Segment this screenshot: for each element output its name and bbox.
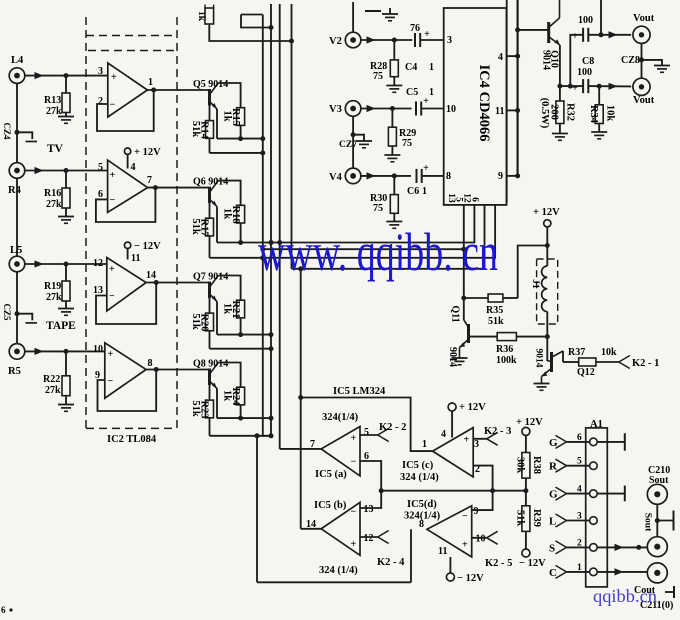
op-amp IC5(d): [419, 506, 486, 557]
wire bar to 51k resistor: [209, 203, 211, 218]
node op3 output junction: [154, 280, 159, 285]
svg-text:L: L: [549, 516, 556, 528]
svg-text:G: G: [549, 437, 558, 449]
svg-text:2: 2: [98, 96, 103, 107]
terminator Cout: [665, 586, 674, 598]
wire +12V down: [546, 227, 548, 246]
svg-text:27k: 27k: [46, 106, 62, 117]
node Sout shield junction: [655, 518, 660, 523]
svg-text:10: 10: [93, 344, 103, 355]
wire op2 output to Q6 base: [148, 187, 210, 189]
terminal +12V IC5c supply: [448, 402, 486, 438]
resistor R28 75: [370, 40, 398, 85]
transistor Q10 9014: [541, 0, 560, 70]
resistor R14 51k: [190, 121, 214, 140]
label TV: [47, 143, 64, 155]
rail Q7 collector net: [217, 334, 271, 336]
node control H1 tap: [269, 240, 274, 245]
node Q10 base tap: [515, 27, 520, 32]
svg-text:10: 10: [476, 534, 486, 545]
svg-text:CZ8: CZ8: [621, 55, 640, 66]
svg-text:CZ4: CZ4: [2, 122, 12, 140]
svg-text:+ 12V: + 12V: [533, 207, 560, 218]
IC4 pin 11 stub: [495, 106, 518, 117]
svg-text:27k: 27k: [46, 292, 62, 303]
node B5 tap at LM324 line: [298, 395, 303, 400]
wire R18 to rail: [240, 223, 242, 243]
svg-text:5: 5: [364, 427, 369, 438]
ground CZ7: [353, 135, 372, 148]
connector C210 Sout jack: [647, 465, 670, 504]
svg-text:IC4 CD4066: IC4 CD4066: [476, 65, 492, 142]
node shield junction: [639, 57, 644, 62]
transistor Q12 9014: [534, 349, 595, 384]
svg-text:+ 12V: + 12V: [459, 402, 486, 413]
label IC5 (c): [402, 460, 434, 471]
svg-text:IC5 (a): IC5 (a): [315, 469, 347, 480]
svg-text:4: 4: [577, 485, 582, 495]
wire C8 to Vout2: [588, 83, 631, 90]
wire V4 to C6: [361, 172, 411, 179]
svg-text:10: 10: [446, 104, 456, 115]
svg-text:Q6 9014: Q6 9014: [193, 177, 228, 188]
bus rail right of IC4: [506, 0, 508, 203]
svg-text:14: 14: [146, 270, 156, 281]
svg-text:IC5 (c): IC5 (c): [402, 460, 434, 471]
bus wire B1: [262, 15, 264, 436]
svg-text:75: 75: [373, 203, 383, 214]
svg-text:51k: 51k: [515, 510, 526, 527]
svg-text:+: +: [108, 349, 114, 360]
svg-text:K2 - 4: K2 - 4: [377, 557, 405, 568]
svg-text:Sout: Sout: [649, 475, 669, 486]
svg-text:IC5 (b): IC5 (b): [314, 500, 347, 511]
relay J1 dashed box: [530, 259, 558, 324]
node bottom rail junction: [255, 433, 260, 438]
wire R24 to rail: [240, 405, 242, 418]
svg-text:100k: 100k: [496, 355, 517, 366]
terminator Sout shield: [657, 511, 673, 531]
resistor R15 1k: [222, 108, 245, 126]
svg-text:+: +: [424, 29, 430, 40]
wire bar to 51k resistor: [209, 385, 211, 400]
pin labels 13 5 12 6: [446, 193, 480, 203]
svg-text:−: −: [109, 291, 115, 302]
bus wire B5 to IC5: [300, 269, 302, 529]
switch hook TV: [17, 132, 37, 141]
svg-text:R37: R37: [568, 347, 585, 358]
ground below R19: [58, 309, 74, 316]
svg-text:qqibb.cn: qqibb.cn: [593, 586, 657, 606]
wire L5 to op-amp pin 12: [25, 260, 108, 267]
wire IC5a pin6 to common node: [360, 461, 381, 491]
svg-text:−: −: [351, 507, 357, 518]
svg-text:R32: R32: [565, 103, 576, 121]
op-amp IC5(b): [306, 502, 374, 555]
resistor R17 51k: [190, 218, 214, 236]
wire bottom rail up to IC5d output: [410, 529, 412, 582]
svg-text:IC2 TL084: IC2 TL084: [107, 434, 157, 445]
wire coil node to Q12 base: [546, 337, 548, 361]
connector Cout jack (C211): [634, 563, 673, 611]
label 324 (1/4) for IC5b: [319, 565, 358, 576]
svg-text:75: 75: [373, 71, 383, 82]
wire L5 shield down to CZ5 node: [16, 272, 18, 314]
op-amp U1C (IC2 pins 12,13,14): [93, 258, 156, 312]
terminator pin4: [597, 486, 625, 502]
IC4 pin 4 stub: [498, 52, 518, 63]
svg-text:12: 12: [93, 258, 103, 269]
switch hook TAPE: [17, 314, 37, 323]
op-amp U1D (IC2 pins 10,9,8): [93, 343, 153, 398]
svg-text:CZ7: CZ7: [339, 140, 357, 150]
svg-text:−: −: [110, 100, 116, 111]
wire base to Q10: [518, 29, 549, 31]
svg-text:V2: V2: [329, 36, 342, 47]
node rail B junction: [260, 150, 265, 155]
svg-text:27k: 27k: [46, 199, 62, 210]
node CZ5: [2, 303, 20, 321]
svg-text:R18: R18: [230, 206, 241, 224]
svg-text:R24: R24: [230, 387, 241, 406]
A1 pin 6 (G): [549, 433, 597, 449]
svg-text:1: 1: [148, 77, 153, 88]
svg-text:− 12V: − 12V: [519, 558, 546, 569]
wire between Vout shields: [641, 43, 643, 78]
wire R4 shield down to L5: [16, 178, 18, 256]
rail Q5 collector net: [217, 138, 263, 140]
node R15 rail junction: [238, 136, 243, 141]
top ground bar: [365, 8, 398, 21]
rail Q7 emitter net: [210, 348, 272, 350]
resistor R39 51k: [515, 506, 543, 549]
svg-text:Q11: Q11: [450, 305, 461, 322]
connector K2-2: [378, 422, 407, 442]
svg-text:+: +: [572, 31, 578, 42]
wire C6 to IC4 pin 8: [422, 171, 451, 182]
svg-text:R16: R16: [44, 188, 61, 199]
svg-text:www. qqibb. cn: www. qqibb. cn: [258, 222, 498, 282]
svg-text:R23: R23: [199, 400, 210, 418]
label IC5 (b): [314, 500, 347, 511]
svg-text:−: −: [108, 376, 114, 387]
svg-text:1: 1: [422, 186, 427, 197]
svg-text:K2 - 2: K2 - 2: [379, 422, 406, 433]
A1 pin 4 (G): [549, 485, 597, 501]
label 324 (1/4) for IC5c: [400, 472, 439, 483]
wire V3 shield down: [352, 116, 354, 168]
svg-text:−: −: [110, 195, 116, 206]
svg-text:IC5 LM324: IC5 LM324: [333, 386, 386, 397]
capacitor 100 (top): [572, 15, 593, 42]
svg-text:4: 4: [498, 52, 503, 63]
wire Q10 emitter down: [559, 45, 561, 101]
node op1 output junction: [151, 88, 156, 93]
svg-text:3: 3: [447, 35, 452, 46]
svg-text:R19: R19: [44, 281, 61, 292]
svg-text:+: +: [111, 72, 117, 83]
svg-text:G: G: [549, 489, 558, 501]
node R24 rail junction: [238, 416, 243, 421]
ground below R29: [384, 155, 400, 162]
svg-text:K2 - 5: K2 - 5: [485, 558, 512, 569]
svg-text:9: 9: [498, 171, 503, 182]
ground below R13: [58, 117, 74, 124]
wire top link horizontal: [241, 14, 263, 16]
node R34 tap: [597, 84, 602, 89]
svg-text:A1: A1: [590, 419, 603, 430]
resistor R34 10k: [588, 86, 616, 131]
connector block A1: [586, 419, 608, 587]
svg-text:5: 5: [577, 457, 582, 467]
connector V4 (RCA jack): [329, 168, 361, 184]
wire Q8 emitter down: [216, 389, 218, 419]
node CZ7: [339, 132, 357, 150]
svg-text:R36: R36: [496, 344, 513, 355]
rail Q8 emitter net: [210, 435, 272, 437]
node rail A junction: [269, 332, 274, 337]
wire Q12 collector to R37: [563, 361, 579, 363]
wire op3 inverting feedback: [96, 283, 156, 325]
svg-text:9014: 9014: [447, 347, 458, 367]
wire Q8 collector to 1k resistor: [218, 363, 240, 388]
node rail A junction: [269, 240, 274, 245]
wire top supply to cap node: [600, 0, 602, 35]
svg-text:CZ5: CZ5: [2, 303, 12, 321]
node bus B3 crossing: [277, 240, 282, 245]
ground below R34: [591, 132, 607, 139]
svg-text:3: 3: [577, 512, 582, 522]
svg-text:R15: R15: [230, 108, 241, 126]
svg-text:75: 75: [402, 138, 412, 149]
node R38 R39 junction: [523, 488, 528, 493]
svg-text:R13: R13: [44, 95, 61, 106]
resistor R35 51k: [486, 294, 504, 327]
resistor R21 1k: [222, 300, 245, 318]
connector Vout lower: [633, 78, 655, 106]
capacitor C5 1: [406, 87, 434, 116]
svg-text:6: 6: [470, 197, 480, 202]
wire pin2 to Sout jack: [597, 544, 647, 551]
wire 1k down to bus: [209, 24, 291, 41]
svg-text:Q5 9014: Q5 9014: [193, 79, 228, 90]
svg-text:+: +: [462, 540, 468, 551]
label Sout rotated: [643, 513, 653, 532]
wire op1 inverting feedback: [97, 90, 154, 131]
node op2 output junction: [153, 185, 158, 190]
svg-text:7: 7: [147, 175, 152, 186]
node op4 output junction: [154, 367, 159, 372]
wire supply to R35 branch: [518, 246, 548, 299]
svg-text:11: 11: [495, 106, 504, 117]
A1 pin 2 (S): [549, 538, 597, 554]
wire op1 output to Q5 base: [147, 89, 209, 91]
svg-text:−: −: [351, 457, 357, 468]
node cap link junction: [568, 32, 604, 88]
connector L5 (RCA jack): [9, 245, 25, 272]
transistor Q11 9014: [447, 298, 469, 367]
svg-text:1: 1: [429, 87, 434, 98]
wire L4 shield down to CZ4 node: [16, 83, 18, 132]
wire R20 to rail: [209, 331, 211, 349]
wire IC5b pin13 up to common node: [360, 491, 381, 508]
connector V3 (RCA jack): [329, 101, 361, 117]
wire Q7 collector to 1k resistor: [218, 276, 240, 301]
wire IC5b pin12 to K2-4: [360, 536, 378, 538]
IC U2 IC4 CD4066: [444, 8, 507, 205]
wire R35 left to Q11 collector node: [464, 297, 488, 299]
terminal +12V op-amp supply: [124, 147, 161, 173]
wire Q5 collector to 1k resistor: [218, 83, 240, 108]
resistor R37 10k: [568, 347, 617, 366]
wire pin1 to Cout jack: [597, 568, 647, 575]
node bus junction top: [289, 39, 294, 44]
svg-text:324 (1/4): 324 (1/4): [319, 565, 358, 576]
svg-text:R34: R34: [588, 105, 599, 124]
svg-text:+: +: [464, 435, 470, 446]
node R18 rail junction: [238, 240, 243, 245]
wire CZ4 to R4: [16, 132, 18, 162]
svg-text:L4: L4: [11, 55, 24, 66]
node relay supply junction: [545, 243, 550, 248]
terminal +12V divider: [516, 417, 543, 453]
connector Vout upper (CZ8): [633, 13, 655, 43]
terminal -12V divider: [519, 549, 546, 569]
svg-text:324(1/4): 324(1/4): [404, 511, 441, 522]
svg-text:Q12: Q12: [577, 367, 595, 378]
ground below Q11 emitter: [452, 358, 468, 365]
svg-text:L5: L5: [10, 245, 22, 256]
svg-text:+ 12V: + 12V: [516, 417, 543, 428]
bus wire B4: [291, 4, 293, 269]
connector L4 (RCA jack): [9, 55, 25, 83]
control wire to IC4 pin 5: [271, 205, 474, 243]
svg-text:11: 11: [438, 546, 447, 557]
svg-text:6: 6: [577, 433, 582, 443]
node junction R19 tap: [64, 262, 69, 267]
rail Q6 collector net: [217, 242, 271, 244]
resistor R38 30k: [515, 453, 543, 506]
svg-text:11: 11: [131, 253, 140, 264]
svg-text:Sout: Sout: [643, 513, 653, 532]
svg-text:C8: C8: [582, 56, 594, 67]
watermark www.qqibb.cn: [258, 222, 498, 282]
bus wire B3: [279, 4, 281, 449]
connector K2-5: [485, 531, 512, 569]
label IC5 (a): [315, 469, 347, 480]
wire R14 to rail: [209, 138, 211, 153]
svg-text:3: 3: [98, 66, 103, 77]
wire V3 to C5: [361, 105, 412, 112]
svg-text:R22: R22: [43, 374, 60, 385]
node R28 tap: [392, 38, 397, 43]
resistor R13 27k: [44, 76, 70, 117]
svg-text:Q8 9014: Q8 9014: [193, 359, 228, 370]
resistor R18 1k: [222, 205, 245, 223]
node rail A junction: [269, 416, 274, 421]
svg-text:76: 76: [410, 23, 420, 34]
resistor R19 27k: [44, 264, 70, 308]
resistor R29 75: [388, 109, 416, 155]
resistor R16 27k: [44, 171, 70, 217]
terminal -12V op-amp supply: [124, 241, 161, 264]
ground below R30: [386, 222, 402, 229]
svg-text:1: 1: [422, 439, 427, 450]
svg-text:+: +: [351, 433, 357, 444]
wire C5 to IC4 pin 10: [421, 104, 456, 115]
label IC5 LM324: [333, 386, 386, 397]
capacitor C4 76: [405, 23, 434, 73]
svg-text:13: 13: [364, 504, 374, 515]
svg-text:+: +: [423, 163, 429, 174]
svg-text:R4: R4: [8, 185, 22, 196]
svg-text:+: +: [110, 170, 116, 181]
label CZ8: [621, 55, 640, 66]
svg-text:4: 4: [441, 429, 446, 440]
capacitor C8 100: [572, 56, 594, 94]
node rail B junction: [269, 433, 274, 438]
svg-text:C: C: [549, 567, 557, 579]
wire IC5b output to bus B5: [301, 528, 322, 530]
wire Q7 emitter down: [216, 302, 218, 335]
svg-text:9: 9: [474, 506, 479, 517]
svg-text:R35: R35: [486, 305, 503, 316]
resistor R24 1k: [222, 387, 245, 406]
resistor R20 51k: [190, 313, 214, 331]
svg-text:C6: C6: [407, 186, 419, 197]
wire C210 shield down: [656, 504, 658, 536]
svg-text:27k: 27k: [45, 385, 61, 396]
node pin11 junction: [515, 108, 520, 113]
svg-text:−: −: [462, 511, 468, 522]
resistor R30 75: [370, 176, 398, 221]
connector R4 (RCA jack): [8, 163, 25, 196]
ground below R16: [58, 217, 74, 224]
svg-text:1: 1: [429, 62, 434, 73]
svg-text:Q7 9014: Q7 9014: [193, 272, 228, 283]
IC4 pin 9 stub: [498, 171, 518, 182]
label IC5(d): [407, 499, 437, 510]
node coil bottom junction: [545, 334, 550, 339]
resistor R23 51k: [190, 400, 214, 418]
wire Q6 collector to 1k resistor: [218, 181, 240, 206]
svg-text:8: 8: [148, 358, 153, 369]
svg-text:4: 4: [131, 162, 136, 173]
svg-text:C5: C5: [406, 87, 418, 98]
wire R4 to op-amp pin 5: [25, 167, 108, 174]
svg-text:Vout: Vout: [633, 95, 655, 106]
node Q11 collector junction: [461, 296, 466, 301]
A1 pin 1 (C): [549, 563, 597, 579]
svg-text:S: S: [549, 542, 555, 554]
node junction R16 tap: [64, 168, 69, 173]
connector R5 (RCA jack): [8, 344, 25, 377]
svg-text:− 12V: − 12V: [457, 573, 484, 584]
wire Q5 emitter down: [216, 109, 218, 139]
svg-text:12: 12: [364, 533, 374, 544]
wire R36 to coil node: [516, 336, 547, 338]
wire IC5a pin5 to K2-2: [360, 434, 378, 436]
svg-text:5: 5: [98, 162, 103, 173]
wire IC5c pin2 to common node: [473, 466, 492, 491]
wire R35 right link: [503, 297, 518, 299]
wire op3 output to Q7 base: [146, 282, 209, 284]
node R30 tap: [392, 173, 397, 178]
node pin9 junction: [515, 173, 520, 178]
wire left bottom rail down: [256, 436, 258, 583]
connector Sout jack: [647, 537, 667, 557]
node junction R22 tap: [64, 349, 69, 354]
